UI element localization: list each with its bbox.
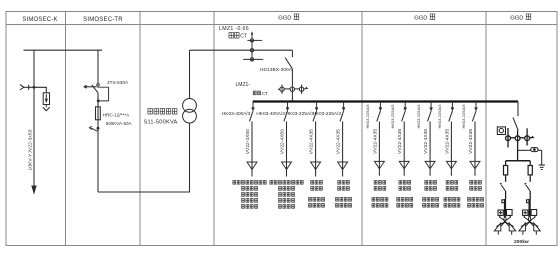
load description text feeder 5-3 (CJK) — [423, 180, 439, 207]
svg-text:SIMOSEC-TR: SIMOSEC-TR — [83, 17, 123, 23]
value label HK03-225A/3 feeder 5-4 (rotated) — [437, 104, 442, 129]
svg-text:VV22-4X50: VV22-4X50 — [280, 129, 286, 154]
svg-text:200kw: 200kw — [514, 239, 529, 245]
wire feeder 5-3 drop — [429, 121, 431, 175]
value label HK03-225A/3 feeder 5-3 (rotated) — [416, 104, 421, 129]
svg-text:500KVA-50A: 500KVA-50A — [106, 121, 132, 126]
svg-text:VV22-4X35: VV22-4X35 — [397, 129, 403, 154]
svg-text:HD13BX-300A: HD13BX-300A — [260, 67, 293, 73]
wire incoming riser column 1 — [33, 50, 35, 186]
svg-text:VV22-4X35: VV22-4X35 — [444, 129, 450, 154]
panel label GGD3 GGD cabinet — [510, 14, 531, 21]
outgoing arrow feeder 4-3 — [311, 162, 321, 170]
feeder tap 4-3 — [316, 102, 318, 111]
knife switch lighting main — [513, 118, 518, 131]
knife switch feeder 5-3 — [428, 111, 432, 121]
neutral branch with fuse link — [518, 148, 542, 165]
wire lighting branch 2 — [529, 161, 531, 182]
three phase risers with CTs — [506, 128, 534, 161]
svg-text:GGD: GGD — [278, 15, 291, 21]
knife switch feeder 5-2 — [402, 111, 406, 121]
cable termination plug — [20, 85, 34, 90]
wire arrester branch — [34, 87, 46, 93]
outgoing arrow feeder 4-1 — [247, 162, 257, 170]
svg-text:GGD: GGD — [510, 15, 523, 21]
svg-text:HRC-12/***A: HRC-12/***A — [103, 112, 130, 117]
wire LV feed from transformer — [190, 49, 293, 51]
ground symbol neutral — [539, 165, 545, 170]
lamp cluster branch 1 — [494, 215, 515, 234]
fuse FU1 HRC-12 — [96, 107, 101, 120]
wire feeder 4-1 drop — [251, 121, 253, 176]
contactor/meter element branch 1 — [504, 199, 506, 217]
transformer T1 — [183, 99, 197, 124]
svg-text:CT: CT — [262, 91, 268, 96]
surge arrester FV1 — [43, 93, 49, 105]
outgoing arrow feeder 5-2 — [399, 161, 409, 168]
wire fuse to transformer — [98, 123, 190, 192]
wire feeder 4-3 drop — [315, 121, 317, 176]
feeder tap 5-4 — [451, 102, 453, 111]
panel label SIMOSEC-K — [22, 17, 57, 23]
knife switch feeder 4-1 — [249, 111, 253, 121]
value label HK03-225A/3 feeder 4-3 — [285, 111, 314, 117]
outgoing arrow feeder 5-4 — [446, 161, 456, 168]
panel label GGD1 GGD cabinet — [278, 14, 299, 21]
feeder tap 4-2 — [287, 102, 289, 111]
knife switch feeder 4-3 — [313, 111, 317, 121]
wire feeder 4-2 drop — [286, 121, 288, 176]
wire branch 2 lower — [529, 191, 531, 199]
wire switch-fuse linkage loop — [98, 87, 109, 101]
value label HD13BX-300A — [260, 67, 293, 73]
protection CT group — [278, 85, 307, 94]
load description text feeder 5-5 (CJK) — [468, 180, 484, 207]
node junction above fuse — [97, 99, 100, 102]
cable label VV22-4X35 feeder 5-5 — [468, 129, 474, 154]
ground symbol arrester — [43, 105, 50, 111]
load description text feeder 4-3 (CJK) — [309, 180, 325, 207]
value label HK03-225A/3 feeder 5-1 (rotated) — [365, 104, 370, 129]
earthing switch blade — [89, 126, 97, 131]
svg-text:CT: CT — [240, 33, 247, 39]
knife switch feeder 5-5 — [472, 111, 476, 121]
svg-text:HK03-225A/3: HK03-225A/3 — [312, 111, 341, 117]
svg-text:LMZ1-: LMZ1- — [236, 82, 251, 88]
feeder tap 5-1 — [379, 102, 381, 111]
cable label VV22-4X35 feeder 4-3 — [309, 129, 315, 154]
meter boxes branch 1 — [498, 210, 512, 216]
label protection CT (CJK) — [253, 91, 268, 96]
svg-text:LMZ1 -0.66: LMZ1 -0.66 — [219, 26, 249, 32]
svg-text:VV22-4X35: VV22-4X35 — [309, 129, 315, 154]
load description text feeder 5-1 (CJK) — [372, 180, 388, 207]
svg-text:HK03-225A/3: HK03-225A/3 — [285, 111, 314, 117]
feeder tap 4-1 — [252, 102, 254, 111]
metering CT group LMZ1 — [243, 32, 263, 61]
svg-text:HK03-225A/3: HK03-225A/3 — [437, 104, 442, 129]
wire feeder 5-4 drop — [450, 121, 452, 175]
value label HK03-225A/3 feeder 5-5 (rotated) — [461, 104, 466, 129]
wire transformer HV lead — [189, 50, 191, 98]
wire LV main busbar 0.4kV — [253, 100, 518, 102]
feeder tap 5-3 — [430, 102, 432, 111]
wire feeder 5-1 drop — [378, 121, 380, 175]
value label 500KVA-50A — [106, 121, 132, 126]
wire main riser to busbar — [291, 69, 293, 101]
wire feeder 5-5 drop — [474, 121, 476, 175]
wire 10kV busbar columns 1-2 — [24, 49, 103, 51]
svg-text:SIMOSEC-K: SIMOSEC-K — [22, 17, 57, 23]
panel label GGD2 GGD cabinet — [414, 14, 435, 21]
node junction col1 — [33, 86, 36, 89]
label lighting transformer (CJK) — [148, 109, 177, 115]
panel label SIMOSEC-TR — [83, 17, 123, 23]
svg-text:VV22-4X35: VV22-4X35 — [372, 129, 378, 154]
fuse lighting branch 2 — [528, 166, 532, 175]
wire feeder 5-2 drop — [403, 121, 405, 175]
kWh meter box — [497, 127, 505, 135]
feeder tap 5-2 — [404, 102, 406, 111]
svg-text:S11-500KVA: S11-500KVA — [144, 119, 178, 125]
load description text feeder 5-4 (CJK) — [444, 180, 460, 207]
cable label VV22-4X35 feeder 5-4 — [444, 129, 450, 154]
lamp cluster branch 2 — [519, 215, 540, 234]
value label S11-500KVA — [144, 119, 178, 125]
wire lighting branch 1 — [505, 161, 507, 182]
knife switch feeder 4-2 — [284, 111, 288, 121]
wire riser column 2 — [97, 50, 99, 83]
value label 200kw — [514, 239, 529, 245]
knife switch feeder 5-4 — [449, 111, 453, 121]
label LMZ1 -0.66 — [219, 26, 249, 32]
wire through fuse — [97, 93, 99, 192]
outgoing arrow feeder 4-2 — [282, 162, 292, 170]
wire branch 1 lower — [505, 191, 507, 199]
cable label VV22-4X50 feeder 4-2 — [280, 129, 286, 154]
svg-text:VV22-4X35: VV22-4X35 — [423, 129, 429, 154]
cable label VV22-4X35 feeder 5-2 — [397, 129, 403, 154]
svg-text:HK03-225A/3: HK03-225A/3 — [416, 104, 421, 129]
svg-text:GGD: GGD — [414, 15, 427, 21]
load description text feeder 4-2 (CJK) — [270, 180, 303, 208]
meter boxes branch 2 — [523, 210, 537, 216]
value label HK03-400A/3 feeder 4-2 — [256, 111, 285, 117]
cable label VV22-4X35 feeder 5-1 — [372, 129, 378, 154]
svg-text:3TS-630A: 3TS-630A — [107, 80, 129, 85]
svg-text:VV22-4X50: VV22-4X50 — [245, 129, 251, 154]
load description text feeder 4-4 (CJK) — [336, 180, 352, 207]
main knife switch HD13BX — [285, 50, 292, 69]
svg-text:10KV-YJV22-3x50: 10KV-YJV22-3x50 — [27, 129, 33, 170]
outgoing arrow feeder 5-1 — [374, 161, 384, 168]
wire feeder 4-4 drop — [342, 121, 344, 176]
svg-text:HK03-400A/3: HK03-400A/3 — [256, 111, 285, 117]
cable label VV22-4X35 feeder 5-3 — [423, 129, 429, 154]
feeder tap 5-5 — [475, 102, 477, 111]
load description text feeder 4-1 (CJK) — [233, 180, 266, 208]
outgoing arrow feeder 4-4 — [338, 162, 348, 170]
svg-text:VV22-4X35: VV22-4X35 — [336, 129, 342, 154]
knife switch feeder 4-4 — [340, 111, 344, 121]
value label HK03-225A/3 feeder 5-2 (rotated) — [390, 104, 395, 129]
load description text feeder 5-2 (CJK) — [397, 180, 413, 207]
cable label VV22-4X50 feeder 4-1 — [245, 129, 251, 154]
value label HRC-12 — [103, 112, 130, 117]
load-break switch QS1 3TS-630A — [86, 84, 99, 93]
label LMZ1- — [236, 82, 251, 88]
contactor/meter element branch 2 — [528, 199, 530, 217]
feeder tap 4-4 — [343, 102, 345, 111]
cable label 10KV-YJV22-3x50 — [27, 129, 33, 170]
wire street lighting tap — [517, 102, 519, 117]
svg-text:HK03-225A/3: HK03-225A/3 — [390, 104, 395, 129]
wire lighting split bar — [506, 160, 531, 162]
fuse lighting branch 1 — [504, 166, 508, 175]
knife switch feeder 5-1 — [377, 111, 381, 121]
value label 3TS-630A — [107, 80, 129, 85]
knife switch branch 1 — [500, 183, 506, 191]
outgoing arrow feeder 5-5 — [470, 161, 480, 168]
node junction below fuse — [97, 127, 100, 130]
svg-text:HK03-225A/3: HK03-225A/3 — [365, 104, 370, 129]
outgoing cable arrow col1 — [31, 186, 36, 195]
svg-text:VV22-4X35: VV22-4X35 — [468, 129, 474, 154]
cable label VV22-4X35 feeder 4-4 — [336, 129, 342, 154]
svg-text:HK03-400A/3: HK03-400A/3 — [222, 111, 251, 117]
knife switch branch 2 — [524, 183, 530, 191]
svg-text:HK03-225A/3: HK03-225A/3 — [461, 104, 466, 129]
value label HK03-225A/3 feeder 4-4 — [312, 111, 341, 117]
value label HK03-400A/3 feeder 4-1 — [222, 111, 251, 117]
outgoing arrow feeder 5-3 — [425, 161, 435, 168]
label metering CT (CJK) — [229, 33, 247, 40]
